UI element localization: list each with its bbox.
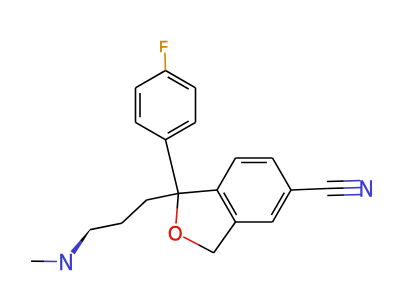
benzo L-TL: [217, 158, 236, 190]
benzo BR-BL: [236, 221, 273, 223]
O-CH2 bond: [183, 237, 198, 245]
aryl LR-B: [166, 122, 196, 139]
aryl B-LL: [136, 122, 166, 139]
benzo double bond inner R-BR: [271, 193, 284, 215]
O-C1 bond: [176, 209, 177, 224]
svg-text:N: N: [59, 249, 74, 276]
aryl UL-T: [136, 71, 166, 88]
nitrile triple bond middle line: [327, 187, 344, 189]
benzo R-BR: [273, 190, 292, 222]
benzo BL-L: [217, 190, 236, 222]
aryl UR-LR: [195, 88, 197, 123]
aryl double bond inner T-UR: [168, 77, 189, 89]
CH2-C3a bond: [214, 222, 236, 253]
svg-text:N: N: [359, 175, 374, 202]
aryl LL-UL: [135, 88, 137, 123]
benzo double bond inner TL-TR: [241, 162, 267, 164]
aryl double bond inner LL-UL: [139, 93, 141, 117]
benzo-CN bond: [291, 189, 327, 191]
benzo TR-R: [273, 158, 292, 190]
aryl double bond inner LR-B: [168, 121, 189, 133]
C1-C7a bond: [178, 190, 217, 193]
nitrile triple bond upper line: [327, 180, 344, 182]
benzo double bond inner BL-L: [224, 193, 237, 215]
N-CH3 bond: [44, 260, 57, 262]
chain bond 2: [122, 200, 147, 223]
svg-text:O: O: [168, 223, 183, 246]
chain bond 3: [90, 223, 122, 230]
benzo TL-TR: [236, 157, 273, 159]
F-C bond: [164, 53, 167, 71]
aryl T-UR: [166, 71, 196, 88]
chain bond 1: [147, 193, 179, 200]
svg-text:F: F: [159, 38, 168, 56]
nitrile triple bond lower line: [327, 194, 344, 197]
aryl-C1 bond: [166, 140, 179, 194]
wedge bond C-N(amine): [80, 230, 90, 243]
